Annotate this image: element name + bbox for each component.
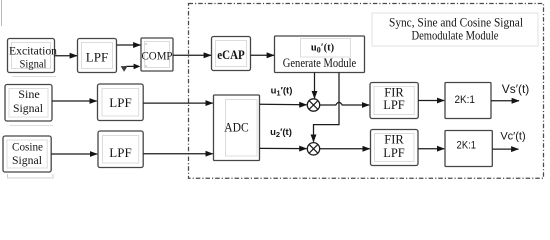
- feedback elbow arrow into COMP: [124, 66, 134, 68]
- shadow under sine box: [10, 125, 54, 127]
- wire 2K:1 -> Vs output: [491, 100, 519, 102]
- svg-text:Signal: Signal: [13, 101, 44, 115]
- wire ADC u1 -> multiplier 1: [260, 103, 307, 106]
- excitation signal box: [8, 39, 55, 73]
- wire cosine -> LPF3: [51, 153, 97, 155]
- title light frame: [372, 13, 538, 46]
- svg-text:LPF: LPF: [383, 146, 405, 160]
- wire 2K:1 (2) -> Vc output: [492, 148, 518, 150]
- wire multiplier1 -> FIR LPF 1 (with jump over vertical): [320, 102, 369, 105]
- svg-text:Demodulate Module: Demodulate Module: [412, 28, 499, 43]
- svg-text:LPF: LPF: [109, 145, 131, 160]
- LPF box 3 (cosine path): [98, 131, 143, 168]
- wire sine -> LPF2: [52, 100, 97, 102]
- wire excitation -> LPF1: [55, 55, 78, 57]
- multiplier 2: [307, 143, 319, 155]
- LPF box 2 (sine path): [98, 84, 144, 121]
- svg-text:ADC: ADC: [224, 121, 249, 135]
- svg-text:2K:1: 2K:1: [454, 94, 475, 106]
- LPF box 1 (excitation path): [78, 39, 117, 73]
- FIR LPF box 1: [370, 83, 418, 119]
- shadow under cosine box: [8, 174, 54, 178]
- svg-text:u1′(t): u1′(t): [271, 86, 293, 98]
- wire FIR1 -> 2K:1: [418, 100, 444, 102]
- svg-text:2K:1: 2K:1: [457, 140, 477, 152]
- wire LPF2 -> ADC: [143, 102, 212, 104]
- wire LPF1 -> COMP (top): [117, 44, 141, 46]
- crop artifact top-left faint line: [1, 0, 3, 26]
- wire LPF3 -> ADC: [143, 153, 212, 155]
- eCAP box: [212, 37, 251, 71]
- ADC box: [214, 95, 260, 161]
- wire generate module -> multiplier 1: [314, 73, 316, 99]
- wire FIR2 -> 2K:1 (2): [418, 148, 444, 150]
- wire multiplier2 -> FIR LPF 2: [320, 148, 370, 150]
- svg-text:Signal: Signal: [20, 57, 48, 71]
- svg-text:LPF: LPF: [86, 50, 108, 65]
- multiplier 1: [307, 99, 319, 111]
- svg-text:Generate Module: Generate Module: [283, 56, 357, 70]
- sine signal box: [5, 85, 52, 122]
- wire ADC u2 -> multiplier 2: [260, 147, 307, 149]
- svg-text:u2′(t): u2′(t): [270, 127, 292, 139]
- svg-text:Vs′(t): Vs′(t): [502, 82, 530, 96]
- 2K:1 box 1: [445, 83, 491, 119]
- svg-text:LPF: LPF: [109, 95, 131, 110]
- svg-text:u0′(t): u0′(t): [311, 43, 335, 55]
- svg-text:COMP: COMP: [142, 49, 173, 63]
- svg-text:eCAP: eCAP: [217, 48, 245, 62]
- svg-text:Signal: Signal: [12, 153, 43, 167]
- svg-text:FIR: FIR: [384, 133, 404, 147]
- u0'(t) Generate Module box U: [275, 36, 365, 73]
- svg-text:Sine: Sine: [18, 87, 40, 101]
- svg-text:LPF: LPF: [383, 98, 405, 112]
- wire generate module -> multiplier 2 (elbow): [314, 73, 340, 142]
- svg-text:Excitation: Excitation: [9, 44, 57, 58]
- COMP port ticks: [145, 43, 147, 45]
- FIR LPF box 2: [371, 130, 419, 166]
- dashed module border (dash-dot box): [189, 4, 544, 179]
- cosine signal box: [3, 136, 51, 172]
- wire COMP -> eCAP: [173, 54, 211, 56]
- svg-text:Vc′(t): Vc′(t): [500, 131, 525, 143]
- COMP box: [141, 38, 173, 71]
- wire eCAP -> generate module: [251, 54, 275, 56]
- 2K:1 box 2: [445, 131, 492, 167]
- shadow under excitation box: [12, 76, 56, 78]
- svg-text:Cosine: Cosine: [12, 140, 43, 154]
